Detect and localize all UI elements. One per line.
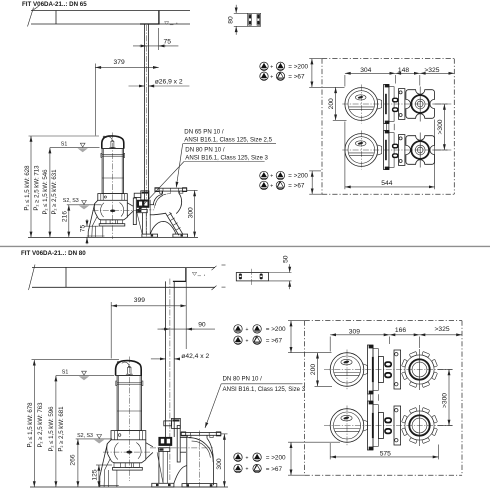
claw coupling DN65 (side) <box>133 191 150 234</box>
svg-text:300: 300 <box>216 458 223 469</box>
svg-text:FIT V06DA-21..: DN 80: FIT V06DA-21..: DN 80 <box>21 250 86 257</box>
dimension P2 628/713 (vertical line 1) <box>30 136 32 237</box>
dimension >200 (pump to wall, bottom of bottom plan) <box>288 442 340 475</box>
svg-text:50: 50 <box>283 255 290 263</box>
svg-text:ANSI B16.1, Class 125, Size 3: ANSI B16.1, Class 125, Size 3 <box>185 154 268 161</box>
legend 3 (top of bottom plan) <box>234 325 286 345</box>
dimension >200 (wall to pump, bottom plan top) <box>288 321 332 353</box>
dimension >300 (between flanges, bottom) <box>438 370 453 426</box>
handle dome <box>116 361 142 376</box>
svg-text:P2 ≥ 2,5 kW: 631: P2 ≥ 2,5 kW: 631 <box>51 169 58 215</box>
guide pipe DN80 <box>166 279 175 480</box>
bracket plan view (80 wide plate with slots) <box>227 5 260 35</box>
left extension line (pump top, bottom half) <box>32 359 120 361</box>
cable gland + cable <box>111 141 114 147</box>
svg-text:90: 90 <box>198 322 206 329</box>
motor body <box>117 376 142 431</box>
dimension 379 <box>95 59 158 136</box>
discharge cone <box>146 443 153 447</box>
dimension 300 (elbow height) <box>187 190 198 237</box>
svg-text:575: 575 <box>380 450 391 457</box>
volute casing <box>94 200 127 220</box>
half divider line <box>0 245 490 247</box>
discharge elbow DN80 with flange and support column <box>150 431 221 488</box>
legend 4 (bottom of bottom plan) <box>234 453 286 473</box>
svg-text:304: 304 <box>360 67 371 74</box>
svg-text:P2 ≥ 2,5 kW: 763: P2 ≥ 2,5 kW: 763 <box>37 402 44 448</box>
dimension 75 (suction clearance) <box>80 219 99 244</box>
svg-text:S2, S3: S2, S3 <box>63 198 79 204</box>
label pipe diameter ø26,9 x 2 <box>129 79 190 86</box>
dimension P2 678/763 (vertical line 1) <box>33 360 35 487</box>
svg-text:>300: >300 <box>442 393 449 408</box>
dimension 200 (pump diameter, bottom plan) <box>310 353 332 387</box>
dimension 266 <box>70 439 78 487</box>
svg-text:>325: >325 <box>424 67 439 74</box>
dimension >325 <box>420 67 455 74</box>
svg-text:DN 80 PN 10 /: DN 80 PN 10 / <box>223 376 263 383</box>
svg-text:DN 80 PN 10 /: DN 80 PN 10 / <box>185 146 225 153</box>
svg-text:399: 399 <box>134 297 145 304</box>
dimension 216 <box>61 205 68 238</box>
suction strainer <box>114 463 120 468</box>
dimension P2 546/631 (vertical line 2) <box>49 148 51 238</box>
dimension 300 (elbow height, bottom) <box>216 434 227 487</box>
left extension line (pump top) <box>29 135 100 137</box>
label pipe diameter ø42,4 x 2 <box>151 353 210 360</box>
svg-text:P2 ≤ 1,5 kW: 546: P2 ≤ 1,5 kW: 546 <box>42 169 49 215</box>
legend 2 (bottom of top plan) <box>260 171 309 189</box>
svg-text:FIT V06DA-21..: DN 65: FIT V06DA-21..: DN 65 <box>22 1 87 8</box>
water level S1 (bottom) <box>56 370 114 381</box>
callout DN 80 (bottom) <box>205 376 306 428</box>
oil housing flange <box>98 194 128 201</box>
guide rail lines between units <box>384 124 395 131</box>
suction skirt / legs <box>88 204 95 238</box>
cable gland + cable <box>128 367 131 374</box>
support strut with ribs <box>154 213 179 235</box>
water level S1 <box>50 142 100 153</box>
svg-text:ø42,4 x 2: ø42,4 x 2 <box>181 353 209 360</box>
svg-text:300: 300 <box>187 207 194 218</box>
svg-text:266: 266 <box>70 454 77 465</box>
svg-text:>325: >325 <box>435 326 450 333</box>
dimension 125 (suction clearance) <box>91 465 112 487</box>
svg-text:P2 ≤ 1,5 kW: 596: P2 ≤ 1,5 kW: 596 <box>48 406 55 452</box>
svg-text:200: 200 <box>328 98 335 109</box>
discharge cone <box>127 203 133 207</box>
handle dome <box>102 136 124 149</box>
svg-text:309: 309 <box>349 328 360 335</box>
dimension 575 <box>330 443 438 459</box>
elbow bend <box>161 191 163 194</box>
svg-text:80: 80 <box>227 16 234 24</box>
legend 1 (top) <box>260 62 309 80</box>
pump unit 1 (plan, bottom half) <box>324 345 453 394</box>
elbow top flange <box>155 188 187 191</box>
volute casing <box>107 440 146 463</box>
svg-text:S1: S1 <box>62 370 69 376</box>
motor centerline <box>111 133 113 240</box>
dimension >325 (bottom) <box>420 326 463 335</box>
pump unit 1 (plan, top half) <box>342 84 451 123</box>
elbow inlet pipe <box>150 204 154 206</box>
svg-text:P2 ≥ 2,5 kW: 713: P2 ≥ 2,5 kW: 713 <box>33 165 40 211</box>
dimension 148 <box>395 67 420 86</box>
dashed enclosure (bottom half) <box>305 321 462 476</box>
svg-text:P2 ≤ 1,5 kW: 628: P2 ≤ 1,5 kW: 628 <box>23 165 30 211</box>
dimension 309 <box>330 328 389 351</box>
elbow top flange <box>181 433 221 436</box>
dashed enclosure (top half) <box>322 59 454 195</box>
pump unit 2 (plan, bottom half) <box>324 401 453 450</box>
svg-text:75: 75 <box>164 39 172 46</box>
guide pipe DN65 <box>145 24 149 237</box>
floor line (top half) <box>28 236 198 238</box>
water level S2, S3 <box>63 198 102 210</box>
ceiling beam (bottom) <box>29 265 226 291</box>
floor line (bottom half) <box>30 486 228 488</box>
beam bracket (bottom) <box>173 268 205 281</box>
water level S2, S3 (bottom) <box>76 433 112 443</box>
dimension >200 (wall to pump, top) <box>309 59 344 88</box>
svg-text:S1: S1 <box>61 142 68 148</box>
suction skirt / legs <box>100 444 108 487</box>
svg-text:>300: >300 <box>437 119 444 134</box>
svg-text:S2, S3: S2, S3 <box>77 433 93 439</box>
elbow foot <box>182 484 217 487</box>
dimension >200 (pump to wall, bottom of top plan) <box>309 171 322 194</box>
dimension 166 <box>390 327 420 348</box>
oil housing flange <box>111 431 146 440</box>
dimension 304 <box>345 67 395 87</box>
discharge elbow DN65 with flange and foot <box>142 188 188 238</box>
motor centerline <box>128 357 130 482</box>
elbow feet <box>142 234 158 237</box>
svg-text:ANSI B16.1, Class 125, Size 2,: ANSI B16.1, Class 125, Size 2,5 <box>184 137 272 144</box>
dimension 75 (pipe to bracket) <box>133 28 178 50</box>
dimension 544 <box>345 120 435 190</box>
callout DN 65 flange <box>176 129 276 188</box>
svg-text:125: 125 <box>91 469 98 480</box>
dimension P2 596/681 (vertical line 2) <box>55 376 57 487</box>
callout DN 80 claw connection <box>137 146 268 211</box>
pump DN80 side view <box>98 357 153 488</box>
elbow inlet pipe <box>180 437 187 439</box>
ceiling beam <box>28 6 191 26</box>
svg-text:75: 75 <box>80 225 87 233</box>
claw coupling DN80 (side) <box>152 418 187 487</box>
saddle curve between feet <box>150 221 176 234</box>
hoist eye <box>103 136 105 138</box>
dimension 399 <box>111 268 186 359</box>
svg-text:200: 200 <box>310 364 317 375</box>
suction strainer <box>100 220 106 224</box>
beam bracket (pipe hanger) <box>140 11 177 25</box>
pump DN65 side view <box>87 133 140 240</box>
elbow bend and support column <box>186 435 188 485</box>
dimension 200 (pump diameter, plan) <box>328 87 346 120</box>
svg-text:DN 65 PN 10 /: DN 65 PN 10 / <box>184 129 224 136</box>
svg-text:P2 ≤ 1,5 kW: 678: P2 ≤ 1,5 kW: 678 <box>27 402 34 448</box>
svg-text:216: 216 <box>61 211 68 222</box>
svg-text:148: 148 <box>398 67 409 74</box>
guide rail lines between units (bottom) <box>368 394 379 401</box>
dimension >300 (between flanges) <box>434 104 448 150</box>
svg-text:166: 166 <box>395 327 406 334</box>
svg-text:ANSI B16.1, Class 125, Size 3: ANSI B16.1, Class 125, Size 3 <box>223 386 306 393</box>
svg-text:544: 544 <box>381 180 392 187</box>
pump unit 2 (plan, top half) <box>342 130 451 169</box>
hoist eye <box>117 361 119 363</box>
svg-text:379: 379 <box>114 59 125 66</box>
svg-text:ø26,9 x 2: ø26,9 x 2 <box>155 79 183 86</box>
motor body <box>102 149 123 194</box>
svg-text:P2 ≥ 2,5 kW: 681: P2 ≥ 2,5 kW: 681 <box>58 406 65 452</box>
bracket plan view (50 plate, bottom) <box>236 255 291 289</box>
dimension 90 (pipe to bracket) <box>158 322 216 329</box>
